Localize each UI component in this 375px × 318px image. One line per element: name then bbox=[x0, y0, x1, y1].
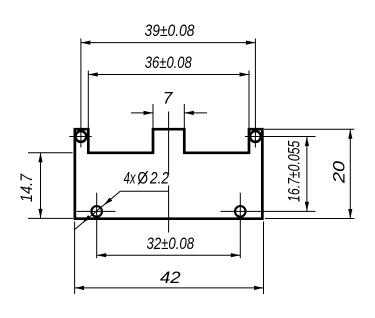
dim line 42 bbox=[75, 287, 264, 289]
arrow 32 left bbox=[97, 253, 107, 257]
leader line bbox=[75, 191, 121, 229]
ext 14.7 bottom bbox=[28, 217, 73, 219]
ext 20 bottom bbox=[265, 218, 354, 220]
svg-text:36±0.08: 36±0.08 bbox=[145, 53, 192, 72]
centerline hole top-left / ext 39 left bbox=[80, 39, 82, 148]
ext 36 right bbox=[248, 71, 250, 129]
arrow 32 right bbox=[231, 253, 241, 257]
svg-text:14.7: 14.7 bbox=[17, 173, 36, 202]
hole top-right bbox=[250, 131, 261, 142]
arrow 39 right bbox=[246, 41, 256, 45]
arrow 7 left bbox=[144, 111, 154, 115]
ext 14.7 top bbox=[28, 152, 73, 154]
hole top-left bbox=[76, 131, 87, 142]
crosshair hole bottom-right / ext 16.7 bottom bbox=[221, 210, 316, 212]
ext 7 right bbox=[183, 104, 185, 128]
dim line 20 bbox=[349, 129, 351, 218]
svg-text:42: 42 bbox=[160, 268, 181, 287]
leader shelf 4xO2.2 bbox=[120, 190, 168, 192]
label diameter symbol bbox=[138, 171, 148, 184]
svg-text:4x: 4x bbox=[124, 168, 136, 187]
arrow 7 right bbox=[184, 111, 194, 115]
arrow 16.7 bottom bbox=[305, 202, 309, 212]
centerline hole bottom-left vertical / ext 32 left bbox=[96, 193, 98, 259]
dim line 14.7 bbox=[40, 153, 42, 219]
hole bottom-left bbox=[91, 206, 102, 217]
crosshair hole bottom-left bbox=[77, 210, 116, 212]
arrow 42 right bbox=[254, 286, 264, 290]
arrow 39 left bbox=[81, 41, 91, 45]
centerline hole bottom-right vertical / ext 32 right bbox=[239, 193, 241, 259]
arrow 36 right bbox=[240, 72, 250, 76]
svg-text:2.2: 2.2 bbox=[149, 168, 169, 187]
centerline hole top-right / ext 39 right bbox=[254, 39, 256, 148]
arrow leader B bbox=[81, 215, 91, 224]
crosshair hole top-left bbox=[69, 136, 91, 138]
ext 7 left bbox=[152, 104, 154, 128]
svg-text:39±0.08: 39±0.08 bbox=[145, 21, 195, 40]
arrow 20 top bbox=[348, 129, 352, 139]
dim line 32 bbox=[97, 254, 241, 256]
ext 20 top bbox=[264, 128, 354, 130]
arrow 14.7 bottom bbox=[38, 209, 42, 219]
part vertical centerline lower bbox=[168, 186, 170, 233]
dim line 7 left bbox=[131, 112, 153, 114]
ext 42 left bbox=[74, 222, 76, 295]
part outline bbox=[75, 129, 263, 219]
arrow leader A bbox=[102, 198, 112, 207]
dim line 39 bbox=[81, 42, 256, 44]
arrow 20 bottom bbox=[348, 209, 352, 219]
svg-text:20: 20 bbox=[329, 160, 348, 184]
hole bottom-right bbox=[235, 206, 246, 217]
dim line 7 right bbox=[184, 112, 207, 114]
crosshair hole top-right / ext 16.7 top bbox=[245, 136, 316, 138]
dim line 16.7 bbox=[306, 137, 308, 212]
ext 36 left bbox=[87, 71, 89, 129]
arrow 42 left bbox=[75, 286, 85, 290]
arrow 36 left bbox=[88, 72, 98, 76]
svg-text:7: 7 bbox=[163, 88, 173, 107]
ext 42 right bbox=[263, 222, 265, 295]
arrow 14.7 top bbox=[38, 153, 42, 163]
part vertical centerline upper bbox=[168, 112, 170, 175]
arrow 16.7 top bbox=[305, 137, 309, 147]
svg-text:16.7±0.055: 16.7±0.055 bbox=[284, 140, 303, 202]
dim line 36 bbox=[88, 74, 249, 76]
svg-text:32±0.08: 32±0.08 bbox=[147, 234, 195, 253]
